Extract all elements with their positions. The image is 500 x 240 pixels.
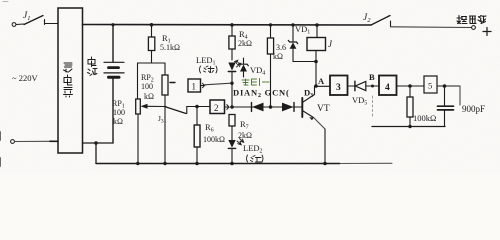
LED1 (green) (228, 60, 241, 107)
resistor R6 (194, 107, 225, 164)
svg-text:2kΩ: 2kΩ (238, 39, 252, 48)
battery GB (104, 25, 124, 143)
transistor VT (294, 86, 330, 163)
capacitor 900pF (438, 86, 486, 127)
wire block4 to block5 (397, 85, 425, 87)
edge specks (0, 132, 1, 166)
bottom rail (96, 163, 340, 165)
svg-text:5: 5 (428, 81, 432, 91)
resistor 3.6k (267, 25, 286, 107)
svg-text:kΩ: kΩ (113, 117, 123, 126)
label 接电线 (457, 16, 486, 24)
wire diode row (232, 106, 301, 108)
node 3.6k column (269, 105, 273, 109)
node R8 bottom (408, 125, 411, 128)
potentiometer RP1 (136, 99, 166, 164)
resistor R4 column top (231, 25, 233, 36)
diode VD2 (252, 103, 264, 112)
resistor R8 100k (407, 86, 436, 127)
svg-text:B: B (369, 72, 375, 82)
relay coil J (307, 25, 333, 86)
label 电池 (battery) (88, 57, 98, 76)
svg-text:1: 1 (192, 82, 197, 92)
svg-text:2: 2 (214, 103, 219, 113)
svg-text:3.6: 3.6 (276, 43, 286, 52)
svg-text:100kΩ: 100kΩ (413, 113, 436, 123)
svg-text:100: 100 (113, 108, 125, 117)
node box1/LED1 (230, 82, 233, 85)
svg-text:5.1kΩ: 5.1kΩ (160, 43, 180, 52)
svg-text:A: A (318, 76, 325, 86)
resistor R2 with minus mark (162, 75, 175, 164)
green watermark line1 (242, 79, 269, 86)
switch J2 (363, 13, 475, 29)
diode VD5 (348, 81, 380, 106)
svg-text:900pF: 900pF (462, 104, 485, 114)
switch J3 in wiper line (158, 107, 210, 125)
wire block5 to output (437, 85, 460, 87)
dashed line below B (372, 96, 374, 117)
label 充电器 (vertical, pseudo CJK strokes) (64, 63, 73, 97)
top rail (83, 24, 372, 27)
resistor R4 (229, 29, 252, 60)
charger box (58, 8, 83, 153)
comparator block 2 (210, 100, 229, 114)
wire bracket below R1 (138, 63, 166, 99)
switch J1 (12, 11, 58, 26)
svg-text:~ 220V: ~ 220V (12, 73, 38, 83)
AC input terminal (bottom) (11, 140, 58, 144)
local ground wire right (372, 126, 445, 128)
svg-text:4: 4 (385, 83, 390, 93)
block 5 (424, 76, 437, 93)
node R6 top (195, 105, 199, 109)
LED2 (red) (228, 139, 243, 164)
block 4 (379, 76, 397, 96)
plus terminal (483, 28, 491, 36)
zener VD1 (288, 25, 316, 62)
node emitter/rail (323, 162, 327, 166)
resistor R7 (229, 115, 252, 141)
zener VD4 (239, 58, 249, 77)
resistor R1 (148, 25, 180, 63)
svg-text:100kΩ: 100kΩ (203, 135, 225, 144)
node A (314, 84, 318, 88)
node diode row left (230, 105, 234, 109)
block 3 (330, 76, 348, 96)
node cap top (443, 84, 447, 88)
svg-text:DIAN2 GCN(: DIAN2 GCN( (233, 88, 290, 100)
wire charger to battery minus (83, 142, 114, 144)
svg-text:3: 3 (336, 83, 341, 93)
svg-text:VT: VT (317, 104, 330, 114)
diode VD3 (282, 103, 294, 112)
svg-text:kΩ: kΩ (144, 92, 154, 101)
svg-text:100: 100 (141, 82, 153, 91)
svg-text:kΩ: kΩ (273, 52, 283, 61)
dangling output stub (459, 86, 461, 105)
node R8 top (408, 84, 412, 88)
node junction (94, 141, 98, 145)
wire down to ground rail (95, 143, 97, 164)
rail junction dots (111, 23, 374, 165)
node VD1/coil (314, 60, 318, 64)
comparator block 1 (188, 79, 231, 92)
